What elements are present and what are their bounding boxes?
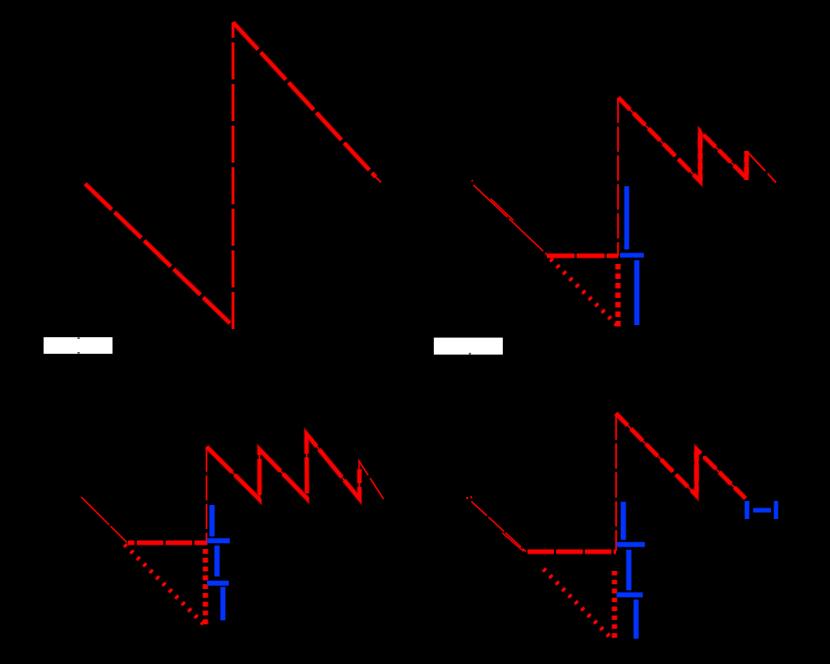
panel BL: tick notch top of box: [78, 337, 80, 339]
panel BL: thin sawtooth underlay: [207, 434, 386, 502]
panel TR: blue error bar lower: [634, 260, 640, 325]
panel TR: jump2 solid overlay b: [744, 152, 749, 163]
panel BL: white label box: [44, 337, 113, 354]
panel TL: thin tail end: [374, 176, 381, 183]
panel BR: tick notch bottom of box: [469, 353, 471, 355]
panel TR: thin declining intro line: [473, 185, 548, 256]
panel BL: thick dashed horizontal plateau: [128, 540, 208, 546]
panel BR: thick dotted declining branch: [544, 569, 612, 639]
panel TR: doubled thin fragment: [491, 199, 514, 221]
panel BR: blue error bar 2: [626, 550, 632, 590]
panel BR: blue horizontal interval line: [753, 508, 771, 513]
panel BL: thick dashed sawtooth: [207, 434, 360, 500]
panel BR: thin sawtooth underlay: [616, 413, 746, 498]
panel BR: thin dashed vertical at rejuvenation: [615, 415, 618, 552]
panel BR: blue error bar 3: [633, 600, 639, 639]
panel BL: thin dashed vertical at rejuvenation: [205, 447, 207, 543]
panel BR: solid jump overlay: [694, 452, 699, 492]
panel TL: thick dashed descent 2: [233, 22, 376, 177]
panel BR: thick dashed sawtooth: [616, 413, 746, 498]
panel BR: white label box: [434, 338, 503, 355]
panel TR: thin sawtooth underlay: [618, 98, 746, 182]
panel BL: thin declining intro line: [81, 497, 127, 542]
panel TR: thick dashed horizontal plateau: [547, 253, 618, 259]
panel BR: blue cap 2: [617, 592, 643, 598]
panel BL: blue error bar 3: [220, 587, 226, 620]
panel TR: blue cap: [620, 252, 644, 258]
panel BR: intro dot b: [470, 496, 472, 498]
panel TR: thin dashed vertical at rejuvenation: [617, 98, 620, 256]
panel BR: blue horizontal interval right cap: [773, 501, 778, 519]
panel TR: thick dotted declining branch: [551, 259, 618, 325]
panel TL: vertical jump at burst: [231, 22, 235, 329]
panel BL: blue cap 1: [207, 538, 230, 544]
panel BR: intro dot a: [466, 497, 468, 499]
panel BL: blue error bar 1: [209, 505, 215, 537]
panel TR: thick dotted vertical drop: [615, 264, 621, 327]
panel BR: thick dotted vertical drop: [611, 571, 617, 640]
panel BL: blue error bar 2: [214, 546, 220, 577]
panel TR: thin dashed tail: [748, 152, 777, 183]
panel TR: jump1 solid overlay b: [698, 133, 703, 159]
panel BL: blue cap 2: [207, 580, 229, 586]
panel BL: thick dotted vertical drop: [202, 549, 208, 627]
panel TR: thin intro dash dot: [472, 180, 473, 181]
panel BR: blue cap 1: [617, 542, 645, 548]
panel BR: blue error bar 1: [620, 502, 626, 540]
panel TR: thick dashed sawtooth: [618, 98, 746, 182]
panel TR: blue error bar upper: [624, 186, 630, 249]
panel BR: doubled thin fragment: [502, 533, 523, 552]
panel TR: jump1 solid overlay a: [698, 163, 703, 181]
panel TL: thick dashed descent 1: [85, 184, 232, 325]
panel TR: jump2 solid overlay a: [744, 167, 749, 180]
panel BR: thin declining intro line: [471, 501, 525, 551]
panel BR: blue horizontal interval left cap: [744, 501, 750, 519]
panel BL: thick dotted declining branch: [125, 545, 207, 627]
panel BR: thick dashed horizontal plateau: [528, 549, 617, 555]
panel BL: tick notch bottom of box: [78, 352, 80, 354]
